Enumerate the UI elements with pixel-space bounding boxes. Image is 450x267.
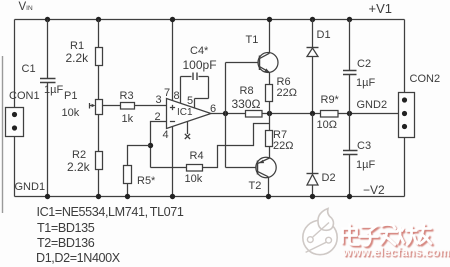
wire R8 to R9: [262, 113, 321, 115]
label R5: [137, 176, 155, 187]
node top rail D1 junction: [310, 17, 315, 22]
wire R7 to T2 emitter: [269, 147, 271, 158]
diode D2: [307, 114, 319, 197]
wire pin 7 to top rail: [172, 20, 174, 101]
wire base drive riser to T1: [226, 63, 260, 114]
value C2 1uF: [356, 78, 375, 89]
label R4: [190, 151, 204, 162]
wire T2 collector to bottom rail: [268, 177, 270, 196]
capacitor C3: [343, 114, 358, 197]
resistor R1: [96, 48, 103, 66]
node top rail C2 junction: [347, 17, 352, 22]
wire C1 risers: [47, 20, 49, 197]
label C2: [357, 59, 371, 70]
capacitor C1: [40, 79, 56, 83]
label CON2: [410, 74, 441, 85]
resistor R8: [246, 111, 263, 118]
label GND1: [15, 182, 46, 193]
wire base drive dropper to T2: [226, 114, 259, 168]
value R7 22ohm: [273, 141, 293, 152]
label R6: [277, 77, 291, 88]
transistor T1: [258, 53, 278, 73]
value R2 2.2k: [67, 161, 90, 173]
value R8 330ohm: [232, 98, 261, 110]
pin 8: [174, 91, 180, 102]
wire R5 to bottom rail: [127, 184, 129, 197]
pin 5: [187, 96, 193, 107]
label T1: [246, 35, 259, 46]
connector CON2: [399, 93, 415, 138]
wire R1 column: [98, 20, 100, 197]
node bottom rail pin4 junction: [170, 194, 175, 199]
wire R4 feedback to output node B: [203, 124, 270, 168]
value C3 1uF: [356, 160, 375, 171]
wire T1 emitter to R6: [269, 72, 271, 84]
node GND2 junction: [347, 111, 352, 116]
node bottom rail D2 junction: [310, 194, 315, 199]
node feedback junction: [148, 143, 153, 148]
pin 3: [156, 95, 162, 106]
resistor R6: [266, 85, 273, 102]
node B emitter junction: [267, 111, 272, 116]
note T2 type: [37, 237, 94, 250]
node top rail R1 junction: [96, 17, 101, 22]
label R3: [120, 91, 134, 102]
value R3 1k: [122, 114, 134, 125]
note IC1 types: [37, 206, 184, 219]
node bottom rail C1 junction: [45, 194, 50, 199]
diode D1: [307, 20, 319, 114]
resistor R3: [121, 103, 135, 110]
wire node B to R7: [269, 114, 271, 131]
label R7: [273, 130, 287, 141]
char shao: [397, 227, 418, 245]
capacitor C2: [343, 20, 357, 114]
resistor R5: [124, 166, 132, 184]
node top rail T1 junction: [267, 17, 272, 22]
wire pin2 to R4: [151, 167, 187, 169]
resistor R7: [266, 131, 273, 147]
wire pin 4 to bottom rail: [172, 127, 174, 197]
scan border edge: [2, 56, 4, 213]
op-amp IC1: [167, 99, 212, 129]
pin 7: [164, 88, 170, 99]
node A op-amp output junction: [223, 111, 228, 116]
char fa: [380, 225, 396, 245]
label T2: [249, 181, 262, 192]
wire bottom rail: [15, 138, 405, 197]
wire R6 to node B: [269, 102, 271, 114]
char you: [418, 225, 431, 244]
label R8: [240, 86, 254, 97]
wire branch to R5: [128, 146, 151, 166]
note D1 D2 type: [36, 252, 120, 265]
wire pin 2: [151, 122, 167, 168]
label P1: [64, 91, 77, 102]
label C4: [190, 46, 208, 57]
pin 2: [155, 112, 161, 123]
label R9: [321, 95, 339, 106]
value R6 22ohm: [277, 88, 297, 99]
label -V2: [363, 184, 385, 196]
wire CON1 to bottom rail: [14, 137, 16, 197]
node bottom rail R5 junction: [125, 194, 130, 199]
capacitor C4 loop: [181, 73, 209, 109]
value C1 1uF: [44, 85, 63, 96]
potentiometer P1: [90, 100, 103, 115]
node top rail C1 junction: [45, 17, 50, 22]
resistor R2: [96, 152, 103, 170]
label +V1: [369, 2, 393, 15]
label C1: [22, 64, 36, 75]
node bottom rail C3 junction: [347, 194, 352, 199]
pin 4: [163, 130, 169, 141]
node bottom rail R2 junction: [96, 194, 101, 199]
node D1 D2 junction: [310, 111, 315, 116]
wire VIN drop to CON1: [14, 20, 16, 108]
wire R3 to pin 3: [135, 105, 167, 107]
node top rail pin7 junction: [170, 17, 175, 22]
wire pin 8 riser: [180, 77, 182, 104]
pin 6: [210, 104, 216, 115]
value R1 2.2k: [66, 52, 89, 64]
wire T1 collector to top rail: [269, 20, 271, 53]
label GND2: [357, 100, 388, 111]
value R9 10ohm: [317, 120, 337, 131]
label CON1: [9, 91, 40, 102]
wire output pin 6: [211, 113, 246, 115]
resistor R4: [187, 165, 203, 172]
label C3: [357, 141, 371, 152]
label IC1: [177, 108, 193, 118]
char dian: [343, 225, 359, 245]
transistor T2: [256, 157, 276, 177]
value C4 100pF: [183, 59, 217, 71]
wire top rail +V1: [15, 20, 405, 93]
wire P1 wiper to R3: [103, 105, 121, 107]
char zi: [360, 227, 378, 246]
note T1 type: [37, 222, 94, 235]
resistor R9: [321, 111, 339, 118]
label D1: [317, 30, 331, 41]
value R4 10k: [185, 174, 203, 185]
connector CON1: [6, 108, 24, 137]
label R2: [72, 150, 86, 161]
pin 1 stub with x mark: [185, 122, 190, 140]
value P1 10k: [62, 108, 80, 119]
watermark url www.elecfans.com: [343, 247, 450, 259]
label VIN: [19, 2, 33, 14]
label R1: [70, 41, 84, 52]
wire R9 to CON2: [338, 113, 399, 115]
label D2: [322, 173, 336, 184]
node bottom rail T2 junction: [266, 194, 271, 199]
